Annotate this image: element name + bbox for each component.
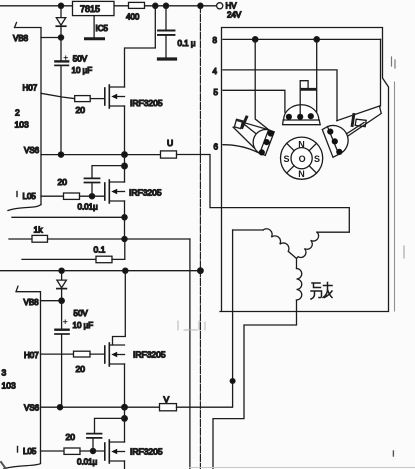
hall sensor right pole [352, 115, 354, 126]
svg-text:V: V [164, 395, 170, 405]
svg-text:400: 400 [126, 13, 140, 22]
wire pin8 to right pole [380, 39, 382, 106]
wire Q2 source down [124, 201, 126, 217]
node pin8 left branch [253, 37, 258, 42]
node rail2 at drain column [123, 268, 128, 273]
svg-text:5: 5 [214, 88, 219, 97]
rotor outer circle [281, 137, 323, 179]
motor winding bottom coil [213, 259, 302, 469]
svg-text:H07: H07 [24, 351, 39, 360]
svg-text:4: 4 [213, 67, 218, 76]
scan artifact bottom left corner [1, 462, 6, 469]
svg-text:20: 20 [66, 432, 76, 442]
node gate-cap junction upper [89, 194, 94, 199]
motor winding left coil [233, 229, 297, 259]
pin H07 lower [24, 351, 74, 360]
hall sensor middle pole [300, 81, 315, 114]
resistor 20 gate L upper [58, 177, 105, 199]
wire Q3 source to VS6 lower [124, 364, 126, 407]
wire U phase to motor [177, 155, 350, 233]
svg-text:S: S [284, 154, 290, 164]
scan artifact right edge dash [403, 246, 405, 258]
hall lead right pole [335, 123, 364, 142]
svg-text:8: 8 [213, 36, 218, 45]
IC box upper-left controller [8, 23, 41, 211]
IC box lower-left controller [4, 286, 41, 468]
motor winding right coil [297, 232, 350, 258]
wire drain jog from top rail to Q1 drain [125, 6, 156, 87]
svg-text:IRF3205: IRF3205 [130, 98, 163, 108]
svg-text:3: 3 [2, 368, 7, 378]
wire column to 1k row [124, 217, 126, 239]
transistor Q2 IRF3205 upper low-side [105, 180, 162, 203]
svg-text:N: N [298, 140, 305, 150]
transistor Q1 IRF3205 upper high-side [105, 85, 163, 108]
node U phase junction [122, 152, 128, 158]
svg-text:L05: L05 [23, 192, 37, 201]
wire pin8 to middle pole [311, 39, 317, 116]
stator pole middle dome [283, 105, 321, 125]
pin VB8 lower [24, 298, 62, 307]
node rail2 at HV rail [198, 268, 204, 274]
svg-text:1k: 1k [34, 225, 44, 235]
stator pole left dome [253, 130, 274, 156]
capacitor 50V 10uF lower [55, 301, 93, 408]
rotor spokes [287, 143, 317, 173]
resistor 20 gate H lower [74, 351, 105, 374]
resistor U phase [161, 138, 177, 158]
node VS6-cap junction [58, 152, 63, 157]
pin H07 upper [23, 84, 75, 99]
svg-text:10 μF: 10 μF [73, 321, 94, 330]
wire Q1 source to U node [124, 106, 126, 155]
pin VS6 upper [24, 146, 161, 155]
wire V node to Q4 drain [124, 407, 126, 442]
svg-text:L05: L05 [23, 447, 37, 456]
scan artifact marks lower middle [178, 321, 205, 330]
wire rail2 to Q3 drain jog [113, 271, 126, 345]
svg-text:20: 20 [58, 177, 68, 187]
wire rail W down from 1k row [189, 239, 191, 469]
svg-text:HV: HV [226, 2, 238, 11]
svg-text:2: 2 [15, 108, 20, 118]
node junction top rail at diode [58, 3, 63, 8]
svg-text:VS6: VS6 [24, 404, 40, 413]
svg-text:50V: 50V [74, 309, 89, 318]
svg-text:IRF3205: IRF3205 [129, 188, 162, 198]
svg-text:24V: 24V [227, 11, 242, 20]
svg-text:0.1 μ: 0.1 μ [178, 39, 196, 48]
svg-text:20: 20 [76, 105, 86, 115]
hall sensor left pole [242, 117, 247, 127]
wire source return line [12, 216, 125, 218]
wire top supply rail [0, 5, 216, 7]
svg-text:IC5: IC5 [96, 24, 109, 33]
resistor 0.1 [22, 239, 125, 263]
pin 4 motor [213, 67, 338, 121]
hall body right pole [355, 119, 366, 126]
resistor V phase [160, 395, 177, 411]
node V phase junction [122, 404, 128, 410]
transistor Q3 IRF3205 lower high-side [105, 343, 166, 366]
stator pole left body [233, 119, 269, 153]
resistor 20 gate H upper [75, 96, 105, 115]
svg-text:103: 103 [15, 120, 29, 130]
node VB8 junction [58, 35, 63, 40]
svg-text:10 μF: 10 μF [72, 66, 93, 75]
svg-text:0.01μ: 0.01μ [78, 203, 99, 212]
pin VB8 upper [13, 34, 61, 43]
svg-text:VB8: VB8 [13, 34, 29, 43]
resistor 400 [126, 2, 145, 21]
ground of IC5 [86, 16, 104, 39]
node artifact on V riser [230, 379, 235, 384]
scan artifact bottom edge [190, 467, 415, 469]
label motor (马达) [311, 283, 332, 300]
svg-text:0.01μ: 0.01μ [77, 458, 98, 467]
svg-text:S: S [314, 154, 320, 164]
capacitor 50V 10uF upper [55, 38, 92, 155]
node rail2 at diode [59, 268, 64, 273]
pin VS6 lower [24, 404, 160, 413]
resistor 20 gate L lower [64, 432, 105, 454]
svg-text:IRF3205: IRF3205 [130, 447, 163, 457]
svg-text:IRF3205: IRF3205 [133, 350, 166, 360]
svg-text:U: U [167, 138, 173, 148]
svg-text:7815: 7815 [80, 4, 100, 14]
node 1k row junction [122, 236, 127, 241]
node gate-cap junction lower [90, 448, 95, 453]
node junction top rail at 0.1u cap [163, 3, 168, 8]
capacitor 0.01u upper [78, 166, 125, 212]
transistor Q4 IRF3205 lower low-side [105, 440, 163, 463]
winding dots right pole [327, 129, 342, 155]
svg-text:6: 6 [214, 143, 219, 152]
capacitor 0.01u lower [77, 418, 125, 466]
svg-text:20: 20 [76, 364, 86, 374]
svg-text:VS6: VS6 [24, 146, 40, 155]
pin 5 motor [214, 88, 289, 116]
node Q2 drain junction [122, 163, 128, 169]
hall lead left pole [245, 125, 267, 143]
pin L05 upper [17, 192, 64, 201]
wire HV vertical rail [199, 6, 201, 469]
diode D2 [57, 271, 67, 301]
pin 6 motor [214, 143, 259, 153]
capacitor C 0.1u [158, 6, 196, 59]
node junction top rail at drain jog [153, 3, 158, 8]
stator pole right body [337, 106, 381, 138]
rotor pole letters [284, 140, 321, 179]
node pin8 mid branch [314, 37, 319, 42]
terminal HV 24V [217, 2, 242, 20]
stator pole right dome [322, 125, 348, 157]
scan artifact right short strokes [392, 57, 396, 68]
svg-text:50V: 50V [73, 55, 88, 64]
svg-text:H07: H07 [23, 84, 38, 93]
wire second supply rail [0, 270, 200, 272]
scan artifact double edge right [394, 82, 396, 311]
wire V phase to motor [177, 230, 233, 407]
winding dots middle pole [286, 113, 314, 120]
scan artifact bottom right tick [392, 451, 394, 456]
svg-text:0.1: 0.1 [94, 245, 106, 255]
rotor inner circle [291, 148, 312, 169]
svg-text:VB8: VB8 [24, 298, 40, 307]
wire Q4 source down [124, 461, 126, 469]
svg-text:O: O [299, 154, 306, 164]
wire U node to Q2 drain [124, 155, 126, 182]
node Q2 source junction [122, 215, 127, 220]
node Q4 drain junction [122, 416, 128, 422]
resistor 1k [9, 225, 190, 243]
node VS6 lower cap junction [57, 405, 62, 410]
motor enclosure box [220, 28, 389, 312]
pin L05 lower [18, 447, 65, 457]
regulator 7815 [73, 1, 115, 15]
winding dots left pole [259, 130, 274, 155]
node junction top rail at HV vertical rail [198, 3, 203, 8]
svg-text:103: 103 [2, 381, 16, 391]
diode D1 [56, 6, 66, 38]
pin 8 motor [213, 36, 381, 45]
svg-text:N: N [298, 169, 305, 179]
wire pin8 to left pole [255, 39, 269, 129]
node VB8 lower junction [59, 298, 64, 303]
